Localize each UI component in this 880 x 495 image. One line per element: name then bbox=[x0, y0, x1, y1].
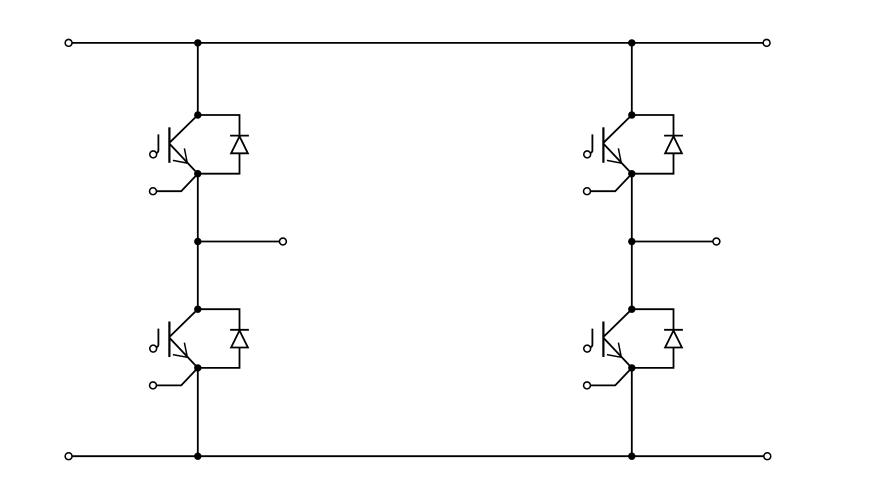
wire: collector of Q3 to cathode of D3 bbox=[632, 115, 674, 136]
junction: emitter node of Q2 bbox=[194, 364, 201, 371]
wire: left leg, top bus to upper collector bbox=[197, 43, 199, 115]
wire: right leg, top bus to upper collector bbox=[631, 43, 633, 115]
diode D4 (freewheeling, antiparallel to Q4) bbox=[664, 330, 683, 348]
wire: anode of D1 to emitter of Q1 bbox=[198, 153, 240, 173]
terminal: DC+ right bbox=[763, 39, 770, 46]
terminal: phase output 2 bbox=[713, 238, 720, 245]
wire: collector of Q2 to cathode of D2 bbox=[198, 309, 240, 330]
transistor Q4 (IGBT, bottom-right) bbox=[590, 309, 632, 368]
wire: auxiliary emitter lead of Q3 bbox=[590, 174, 631, 192]
terminal: DC+ left bbox=[65, 39, 72, 46]
terminal: gate of Q2 bbox=[150, 345, 157, 352]
wire: left leg, lower emitter to bottom bus bbox=[197, 368, 199, 456]
diode D3 (freewheeling, antiparallel to Q3) bbox=[664, 136, 683, 154]
terminal: auxiliary emitter of Q3 bbox=[584, 188, 591, 195]
junction: collector node of Q3 bbox=[628, 111, 635, 118]
wire: anode of D3 to emitter of Q3 bbox=[632, 153, 674, 173]
terminal: gate of Q4 bbox=[584, 345, 591, 352]
junction: left leg bottom bus node bbox=[194, 453, 201, 460]
junction: emitter node of Q3 bbox=[628, 170, 635, 177]
node: phase output 2 bbox=[628, 238, 635, 245]
wire: auxiliary emitter lead of Q2 bbox=[156, 368, 197, 386]
terminal: gate of Q3 bbox=[584, 151, 591, 158]
junction: right leg top bus node bbox=[628, 39, 635, 46]
wire: phase 2 output lead bbox=[632, 241, 713, 243]
wire: top DC+ bus bbox=[72, 42, 763, 44]
wire: left leg, phase node to lower collector bbox=[197, 242, 199, 310]
diode D1 (freewheeling, antiparallel to Q1) bbox=[230, 136, 249, 154]
junction: collector node of Q2 bbox=[194, 306, 201, 313]
wire: phase 1 output lead bbox=[198, 241, 280, 243]
terminal: auxiliary emitter of Q4 bbox=[584, 382, 591, 389]
junction: left leg top bus node bbox=[194, 39, 201, 46]
transistor Q3 (IGBT, top-right) bbox=[590, 115, 632, 174]
transistor Q2 (IGBT, bottom-left) bbox=[156, 309, 198, 368]
terminal: DC- left bbox=[65, 453, 72, 460]
terminal: gate of Q1 bbox=[150, 151, 157, 158]
wire: right leg, phase node to lower collector bbox=[631, 242, 633, 310]
wire: right leg, upper emitter to phase node bbox=[631, 174, 633, 242]
junction: emitter node of Q4 bbox=[628, 364, 635, 371]
wire: anode of D2 to emitter of Q2 bbox=[198, 348, 240, 368]
junction: emitter node of Q1 bbox=[194, 170, 201, 177]
wire: collector of Q1 to cathode of D1 bbox=[198, 115, 240, 136]
terminal: auxiliary emitter of Q1 bbox=[150, 188, 157, 195]
junction: collector node of Q4 bbox=[628, 306, 635, 313]
wire: collector of Q4 to cathode of D4 bbox=[632, 309, 674, 330]
transistor Q1 (IGBT, top-left) bbox=[156, 115, 198, 174]
junction: collector node of Q1 bbox=[194, 111, 201, 118]
terminal: phase output 1 bbox=[279, 238, 286, 245]
wire: auxiliary emitter lead of Q1 bbox=[156, 174, 197, 192]
terminal: auxiliary emitter of Q2 bbox=[150, 382, 157, 389]
wire: bottom DC- bus bbox=[72, 455, 764, 457]
wire: right leg, lower emitter to bottom bus bbox=[631, 368, 633, 456]
wire: auxiliary emitter lead of Q4 bbox=[590, 368, 631, 386]
junction: right leg bottom bus node bbox=[628, 453, 635, 460]
diode D2 (freewheeling, antiparallel to Q2) bbox=[230, 330, 249, 348]
terminal: DC- right bbox=[764, 453, 771, 460]
node: phase output 1 bbox=[194, 238, 201, 245]
wire: left leg, upper emitter to phase node bbox=[197, 174, 199, 242]
wire: anode of D4 to emitter of Q4 bbox=[632, 348, 674, 368]
